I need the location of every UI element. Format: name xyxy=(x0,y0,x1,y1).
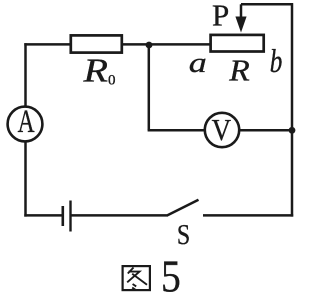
svg-text:S: S xyxy=(177,220,190,251)
svg-text:5: 5 xyxy=(161,251,181,296)
wire battery to switch xyxy=(72,214,169,217)
wire left rail lower (ammeter bottom to bottom corner) xyxy=(24,141,27,216)
wire top-left horizontal from left corner to R0 xyxy=(24,43,70,46)
wire top-right from slider to right rail xyxy=(241,3,293,6)
svg-text:a: a xyxy=(189,47,207,79)
ammeter A xyxy=(8,107,43,142)
resistor R0 xyxy=(71,35,122,52)
rheostat R body xyxy=(211,35,264,52)
wire bottom-left to battery xyxy=(24,214,61,217)
voltmeter V xyxy=(205,113,239,147)
svg-text:A: A xyxy=(18,104,35,140)
caption 图 glyph drawn as strokes xyxy=(123,266,150,290)
wire voltmeter branch left horizontal xyxy=(148,129,205,132)
battery negative plate (short) xyxy=(61,206,64,226)
battery positive plate (long) xyxy=(69,201,71,232)
wire switch to bottom-right corner xyxy=(203,214,293,217)
wire junction to rheostat terminal a xyxy=(149,43,210,46)
svg-text:0: 0 xyxy=(108,73,116,89)
switch S blade xyxy=(168,200,199,215)
node junction dot on right rail xyxy=(289,127,296,134)
wire from R0 to node junction xyxy=(123,43,149,46)
wire voltmeter to right rail xyxy=(240,129,293,132)
svg-text:R: R xyxy=(228,52,250,87)
svg-text:R: R xyxy=(82,53,108,90)
node junction dot after R0 xyxy=(146,42,153,49)
svg-text:P: P xyxy=(212,0,229,33)
wire right vertical rail xyxy=(291,3,294,217)
svg-text:b: b xyxy=(270,44,283,80)
slider P arrow xyxy=(240,4,243,18)
wire left rail upper (corner to ammeter top) xyxy=(24,43,27,106)
wire from node down to voltmeter branch xyxy=(148,44,151,130)
svg-text:V: V xyxy=(212,112,232,147)
